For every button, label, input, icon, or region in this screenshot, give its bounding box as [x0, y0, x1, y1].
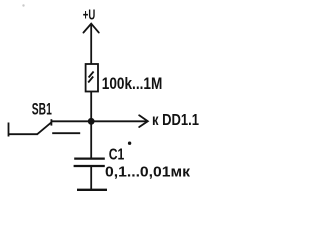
svg-text:C1: C1: [109, 147, 125, 164]
svg-text:100k...1M: 100k...1M: [102, 75, 163, 93]
svg-text:0,1...0,01мк: 0,1...0,01мк: [105, 164, 191, 180]
svg-text:SB1: SB1: [32, 100, 52, 118]
svg-text:к DD1.1: к DD1.1: [152, 112, 199, 129]
svg-text:+U: +U: [83, 6, 96, 23]
